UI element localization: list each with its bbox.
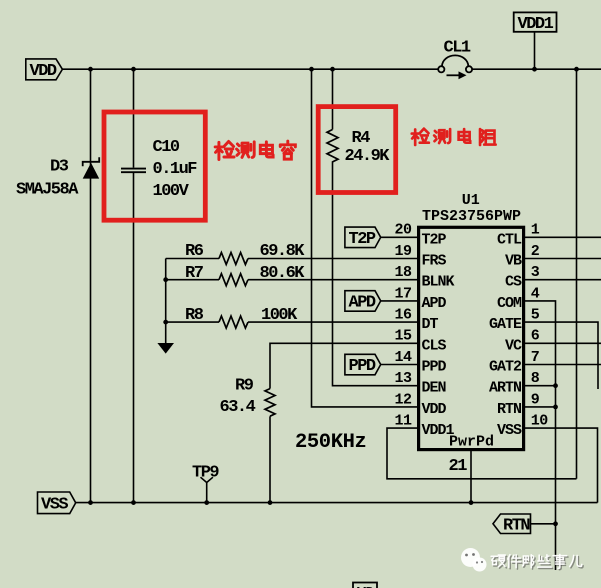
node top rail / VDD1 label (532, 67, 537, 72)
wire RTN port stub (531, 523, 556, 525)
wire VDD1 label drop (534, 32, 536, 69)
svg-text:VDD: VDD (422, 401, 447, 418)
svg-text:CLS: CLS (422, 337, 447, 354)
node VSS rail / D3 (88, 500, 93, 505)
svg-text:2: 2 (531, 243, 540, 260)
wire VDD top rail (62, 68, 601, 70)
wire pin 18 BLNK through R7 (166, 279, 419, 281)
watermark text shadow (492, 556, 583, 570)
wire pin 15 CLS to R9 (270, 343, 419, 388)
svg-text:R6: R6 (185, 242, 204, 261)
node RTN net / RTN port (553, 521, 558, 526)
port VSS (38, 492, 76, 515)
svg-text:18: 18 (394, 264, 412, 281)
svg-text:14: 14 (394, 349, 412, 366)
port RTN (493, 514, 531, 536)
resistor R6 (219, 253, 248, 265)
svg-text:19: 19 (394, 243, 412, 260)
svg-text:C10: C10 (153, 138, 180, 157)
resistor R8 (219, 316, 248, 328)
svg-text:7: 7 (531, 349, 540, 366)
svg-text:69.8K: 69.8K (260, 242, 306, 261)
svg-text:R4: R4 (352, 129, 371, 148)
cropped label box at bottom edge (353, 583, 377, 588)
port APD (345, 291, 381, 313)
resistor R9 (265, 389, 275, 417)
svg-text:VC: VC (505, 337, 522, 354)
wire APD port to pin 17 (381, 300, 419, 302)
watermark icon (461, 548, 487, 572)
svg-text:4: 4 (531, 285, 540, 302)
svg-text:21: 21 (449, 457, 468, 476)
node top rail / right rail (574, 67, 579, 72)
ground arrow symbol (157, 343, 174, 354)
svg-text:10: 10 (531, 413, 549, 430)
svg-text:3: 3 (531, 264, 540, 281)
svg-text:FRS: FRS (422, 253, 447, 270)
svg-text:8: 8 (531, 370, 540, 387)
wire VDD1 right rail (576, 69, 578, 479)
wire R6 R7 R8 left bus (165, 259, 167, 344)
svg-text:RTN: RTN (497, 401, 522, 418)
port T2P (345, 227, 381, 249)
annotation red box around R4 (318, 107, 396, 193)
annotation text detection resistor (412, 129, 496, 145)
svg-text:DEN: DEN (422, 380, 447, 397)
node top rail / D3 (88, 67, 93, 72)
svg-text:15: 15 (394, 328, 412, 345)
wire C10 branch upper (133, 69, 135, 167)
inductor CL1 (438, 55, 472, 75)
wire pin 21 pad to VSS (470, 450, 472, 503)
node R bus / R7 (163, 277, 168, 282)
svg-text:APD: APD (422, 295, 447, 312)
svg-text:VDD1: VDD1 (518, 15, 554, 34)
wire pin 19 FRS through R6 (166, 258, 419, 260)
svg-text:GAT2: GAT2 (489, 359, 522, 376)
svg-text:VSS: VSS (497, 422, 522, 439)
wire pin 6 VC (524, 342, 601, 344)
svg-text:SMAJ58A: SMAJ58A (16, 181, 79, 200)
annotation text detection capacitor (215, 141, 295, 159)
port PPD (345, 354, 381, 376)
svg-text:VB: VB (505, 253, 522, 270)
node VSS rail / pin21 (469, 500, 474, 505)
svg-text:ARTN: ARTN (489, 380, 522, 397)
wire pin 2 VB (524, 258, 601, 260)
svg-text:TP9: TP9 (192, 463, 219, 482)
svg-text:6: 6 (531, 328, 540, 345)
wire pin 4 COM to RTN net (524, 301, 556, 570)
svg-text:GATE: GATE (489, 316, 522, 333)
svg-text:R7: R7 (185, 264, 204, 283)
svg-text:13: 13 (394, 370, 412, 387)
CL1 arrow head (459, 71, 467, 79)
node VSS rail / TP9 (204, 500, 209, 505)
svg-text:T2P: T2P (422, 231, 447, 248)
svg-text:PwrPd: PwrPd (449, 434, 494, 451)
svg-text:20: 20 (394, 222, 412, 239)
node RTN net / pin8 ARTN (553, 383, 558, 388)
svg-text:R8: R8 (185, 306, 204, 325)
svg-text:12: 12 (394, 391, 412, 408)
wire D3 branch x=90.5 (90, 69, 92, 502)
watermark text (491, 554, 582, 568)
svg-text:VDD1: VDD1 (422, 422, 455, 439)
wire pin 3 CS (524, 279, 601, 281)
wire R4 upper segment (332, 69, 334, 129)
wire R4 to pin 13 DEN (333, 161, 419, 386)
diode D3 (TVS) (83, 157, 100, 178)
svg-text:COM: COM (497, 295, 522, 312)
svg-text:RTN: RTN (503, 517, 530, 536)
wire pin 7 GAT2 (524, 364, 601, 366)
wire VSS bottom rail (76, 502, 598, 504)
node top rail / C10 (131, 67, 136, 72)
svg-text:11: 11 (394, 413, 412, 430)
svg-text:PPD: PPD (349, 357, 376, 376)
svg-text:VSS: VSS (41, 496, 68, 515)
svg-text:63.4: 63.4 (220, 398, 256, 417)
svg-text:1: 1 (531, 222, 540, 239)
wire pin 16 DT through R8 (166, 321, 419, 323)
svg-text:100V: 100V (153, 182, 190, 201)
wire TP9 stem (201, 477, 213, 502)
wire pin 10 VSS to rail (524, 428, 598, 503)
svg-text:BLNK: BLNK (422, 274, 455, 291)
port VDD (26, 59, 63, 81)
node RTN net / pin9 RTN (553, 405, 558, 410)
svg-text:D3: D3 (50, 158, 69, 177)
svg-text:5: 5 (531, 307, 540, 324)
wire VDD to pin 12 (312, 69, 419, 407)
svg-text:DT: DT (422, 316, 439, 333)
svg-text:VDD: VDD (30, 62, 57, 81)
node VSS rail / R9 (268, 500, 273, 505)
svg-text:250KHz: 250KHz (295, 431, 366, 454)
node VSS rail / C10 (131, 500, 136, 505)
wire pin 8 ARTN (524, 385, 556, 387)
capacitor C10 (121, 169, 146, 173)
node top rail / R4 (330, 67, 335, 72)
wire pin 9 RTN (524, 406, 556, 408)
svg-text:TPS23756PWP: TPS23756PWP (422, 208, 521, 225)
svg-text:16: 16 (394, 307, 412, 324)
power label VDD1 box (514, 12, 557, 34)
op-amp U1 body TPS23756PWP (419, 227, 524, 449)
wire pin 1 CTL (524, 236, 601, 238)
resistor R4 (327, 130, 338, 162)
resistor R7 (219, 274, 248, 286)
svg-text:9: 9 (531, 391, 540, 408)
wire pin 11 VDD1 loop (387, 428, 577, 479)
svg-text:R9: R9 (235, 376, 254, 395)
node top rail / VDD pin12 line (309, 67, 314, 72)
svg-text:APD: APD (349, 294, 376, 313)
svg-text:T2P: T2P (349, 230, 376, 249)
wire R9 to VSS rail (269, 416, 271, 502)
svg-text:24.9K: 24.9K (345, 147, 391, 166)
svg-text:PPD: PPD (422, 359, 447, 376)
wire PPD port to pin 14 (381, 364, 419, 366)
node R bus / R8 (163, 320, 168, 325)
annotation red box around C10 (104, 112, 205, 220)
wire C10 branch lower (133, 173, 135, 503)
svg-text:CL1: CL1 (444, 38, 471, 57)
wire pin 5 GATE (524, 322, 598, 389)
svg-text:17: 17 (394, 285, 411, 302)
svg-text:0.1uF: 0.1uF (153, 160, 198, 179)
svg-text:U1: U1 (462, 192, 480, 209)
svg-text:CTL: CTL (497, 231, 522, 248)
svg-text:CS: CS (505, 274, 522, 291)
wire T2P port to pin 20 (381, 236, 419, 238)
svg-text:80.6K: 80.6K (260, 264, 306, 283)
svg-text:100K: 100K (261, 306, 298, 325)
